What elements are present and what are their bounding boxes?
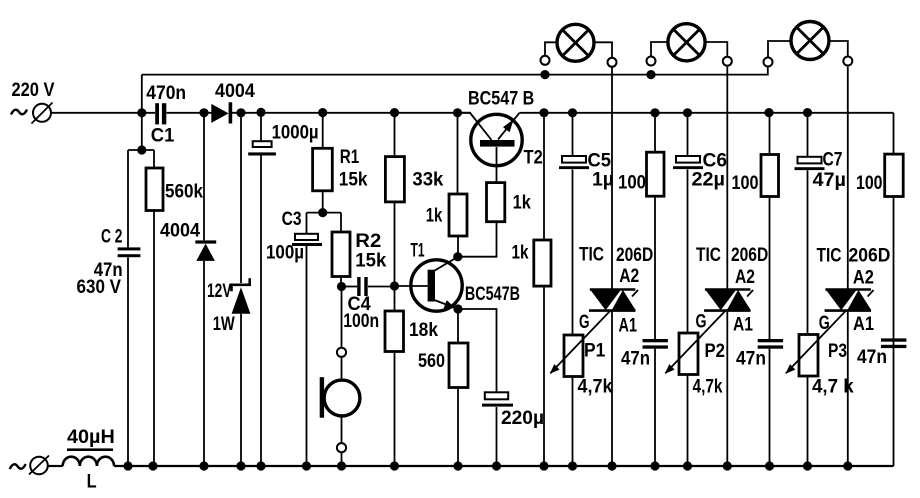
resistor 33k [385,157,404,202]
svg-text:4,7k: 4,7k [693,377,723,398]
svg-text:C3: C3 [282,209,302,230]
inductor L 40uH [63,448,114,466]
svg-text:TIC: TIC [817,246,842,267]
resistor 1k T2 base [487,183,505,222]
svg-text:4004: 4004 [160,220,200,241]
svg-text:L: L [87,472,97,493]
svg-text:G: G [696,312,707,333]
svg-text:C7: C7 [823,150,843,171]
wire bottom neutral rail [49,465,894,467]
svg-text:R1: R1 [340,147,360,168]
svg-text:T1: T1 [411,240,425,261]
wire lamp La3 connections [768,41,791,57]
svg-text:630 V: 630 V [77,277,122,298]
microphone terminal upper [337,348,346,357]
svg-text:12V: 12V [207,281,232,302]
resistor 100R channel 2 [761,155,779,197]
svg-text:A2: A2 [853,268,874,289]
potentiometer P3 4.7k [799,335,818,377]
wire C5 / P1 line [572,113,574,466]
svg-text:1W: 1W [213,314,235,335]
svg-text:18k: 18k [409,320,438,341]
wire T2 emitter [498,113,520,140]
svg-text:100: 100 [856,173,883,194]
svg-text:BC547B: BC547B [465,284,520,305]
wire lamp La2 to triac Tri2 line [726,67,728,466]
wire C6 / P2 line [687,113,689,466]
svg-text:A2: A2 [735,267,755,288]
svg-text:220µ: 220µ [501,408,544,429]
lamp La2 terminal right [723,57,732,66]
label TIC 206D channel 1 [579,244,653,266]
lamp La3 [791,22,829,60]
triac Tri3 TIC206D [825,290,874,311]
svg-text:22µ: 22µ [692,170,726,191]
lamp La1 [557,24,594,61]
svg-text:A1: A1 [619,316,638,337]
triac Tri1 TIC206D [589,290,638,311]
svg-text:100: 100 [732,173,759,194]
transistor T2 BC547B [471,114,522,165]
svg-text:4,7k: 4,7k [578,377,613,398]
capacitor C3 100u [292,234,322,246]
svg-text:A2: A2 [619,266,639,287]
svg-text:1k: 1k [512,242,529,263]
svg-text:15k: 15k [339,169,368,190]
svg-text:C 2: C 2 [101,227,123,248]
svg-text:P1: P1 [584,341,606,362]
svg-text:C1: C1 [151,126,175,147]
wire lamp supply bus [142,68,768,151]
capacitor 47n channel 2 [758,339,783,349]
lamp La3 terminal left [764,58,773,67]
resistor R1 15k [313,148,333,191]
wire T1 collector node [433,222,497,272]
lamp La1 terminal left [541,56,550,65]
node A C2/560k branch [128,150,154,466]
capacitor C5 1u [559,156,589,169]
capacitor C6 22u [673,156,703,169]
resistor 1k emitter load [534,240,551,286]
capacitor C2 47n 630V [118,247,141,257]
potentiometer P2 4.7k [679,333,698,375]
junction dots top bus [540,70,655,79]
svg-text:33k: 33k [412,169,443,190]
zener diode D3 12V 1W [232,278,251,313]
potentiometer P1 4.7k [564,335,583,377]
capacitor 220u electrolytic [482,392,513,406]
wire 100R / 47n line channel 2 [769,113,771,466]
svg-text:G: G [819,313,830,334]
diode D1 1N4004 series [211,102,232,123]
wire 220V AC line top [52,112,894,114]
triac Tri3 gate wire to P3 wiper [786,310,847,374]
wire 100R / 47n line channel 1 [654,113,656,466]
wire T1 emitter node [433,300,497,393]
svg-text:A1: A1 [853,314,874,335]
svg-text:R2: R2 [355,231,381,252]
capacitor 1000u electrolytic [248,141,276,155]
wire zener branch [240,113,242,466]
svg-text:P3: P3 [828,341,847,362]
microphone MIC [320,377,360,418]
svg-text:470n: 470n [146,83,186,104]
lamp La2 terminal left [647,57,656,66]
svg-text:P2: P2 [705,341,726,362]
svg-text:560: 560 [418,351,445,372]
svg-text:206D: 206D [849,246,891,267]
svg-text:560k: 560k [165,182,203,203]
resistor 18k [385,311,404,352]
svg-text:47n: 47n [857,347,887,368]
resistor 560 [449,343,468,388]
wire 33k / T1 base / 18k line [395,113,428,466]
wire 1000u branch [260,113,262,466]
wire lamp La2 connections [651,42,668,56]
svg-text:C6: C6 [703,151,728,172]
junction dots inner nodes [137,145,462,313]
wire R2 bottom node [341,277,395,287]
capacitor 47n channel 3 [881,338,906,348]
lamp La3 terminal right [843,57,852,66]
lamp La2 [668,24,705,61]
wire R1 branch [322,113,324,213]
svg-text:G: G [579,312,590,333]
wire T2 collector [458,113,492,140]
svg-text:47µ: 47µ [813,170,847,191]
svg-text:1k: 1k [513,193,532,214]
capacitor C4 100n [357,277,367,296]
wire lamp La1 to triac Tri1 line [611,67,613,466]
svg-text:100n: 100n [343,311,379,332]
wire T2 base to 1k [496,147,498,183]
lamp La1 terminal right [608,58,617,67]
svg-text:TIC: TIC [579,244,604,265]
svg-text:40µH: 40µH [67,427,115,448]
capacitor 47n channel 1 [643,339,668,349]
svg-text:1000µ: 1000µ [272,123,319,144]
capacitor C1 470n [155,103,166,124]
wire C7 / P3 line [807,113,809,466]
svg-text:TIC: TIC [696,245,721,266]
svg-text:4,7 k: 4,7 k [812,377,854,398]
resistor 560k [146,168,163,211]
junction dots bottom rail [123,461,852,470]
terminal X2 neutral [29,456,49,475]
svg-text:C5: C5 [588,151,612,172]
triac Tri2 TIC206D [704,290,753,311]
wire 4004 shunt diode branch [203,113,205,466]
svg-text:15k: 15k [355,251,386,272]
AC symbol top [11,110,27,115]
wire lamp La1 connections [545,42,557,55]
terminal X1 220V live [32,103,53,124]
svg-text:4004: 4004 [215,81,255,102]
microphone terminal lower [337,443,346,452]
transistor T1 BC547B [411,260,462,311]
wire 1k emitter load branch [543,113,545,466]
svg-text:100µ: 100µ [266,242,304,263]
wire lamp La3 to triac Tri3 line [847,67,849,466]
svg-text:T2: T2 [524,148,543,169]
svg-text:206D: 206D [616,245,653,266]
svg-text:100: 100 [618,172,646,193]
wire 560 bottom [457,388,459,467]
wire right edge riser [893,113,895,466]
AC symbol bottom [10,464,26,469]
wire microphone branch [341,287,343,467]
svg-text:1k: 1k [426,205,443,226]
label TIC 206D channel 3 [817,246,891,267]
capacitor C7 47u [795,157,825,170]
wire 220u bottom [496,407,498,466]
junction dots main rail [137,108,812,118]
svg-text:220 V: 220 V [12,80,55,101]
svg-text:47n: 47n [736,349,766,370]
wire 1k collector load top [457,113,459,194]
resistor 100R channel 1 [647,152,665,196]
svg-text:A1: A1 [733,314,753,335]
diode D2 1N4004 shunt [195,240,216,261]
triac Tri2 gate wire to P2 wiper [665,310,726,374]
svg-text:BC547 B: BC547 B [468,88,534,109]
resistor 1k collector load [449,194,467,236]
label TIC 206D channel 2 [696,245,768,266]
triac Tri1 gate wire to P1 wiper [550,310,611,374]
svg-text:47n: 47n [621,349,650,370]
svg-text:206D: 206D [731,245,768,266]
wire R1 bottom node to C3 and R2 [307,213,342,466]
resistor 100R channel 3 [885,154,904,196]
resistor R2 15k [332,232,350,277]
svg-text:1µ: 1µ [592,170,614,191]
